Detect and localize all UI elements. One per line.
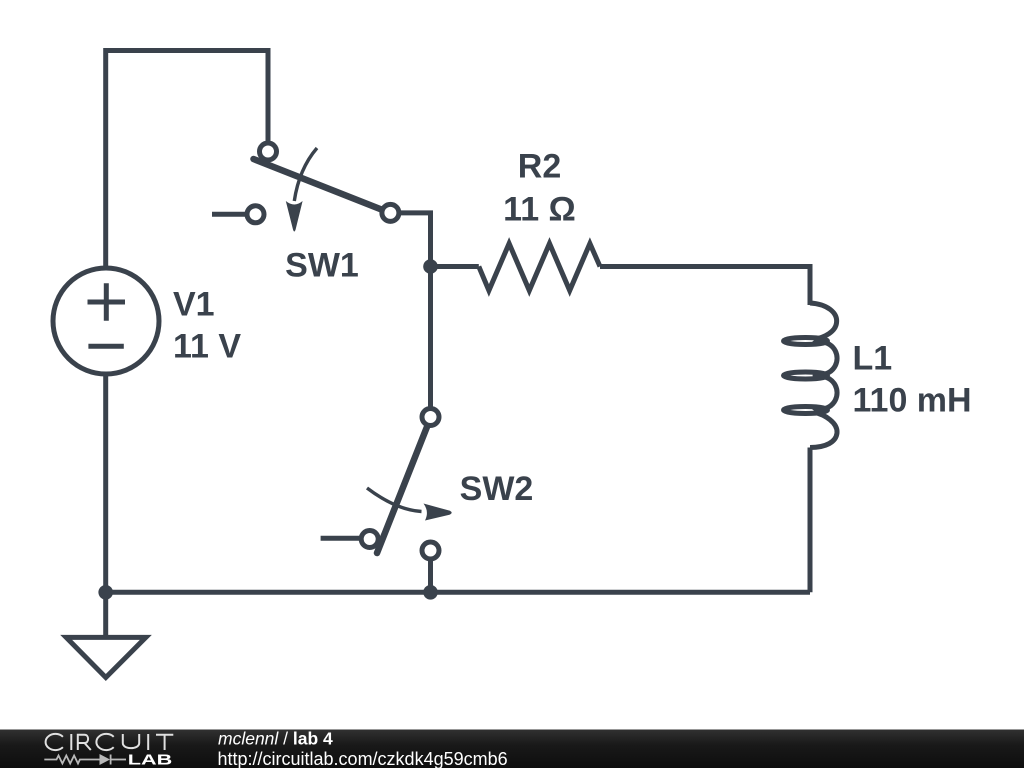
wire ground stub: [103, 592, 108, 637]
SW2 arrow head: [424, 504, 452, 521]
SW2 blade: [377, 418, 431, 553]
switch SW2: [321, 409, 452, 560]
wire SW2 bottom to rail: [428, 558, 433, 592]
wire SW1 right to node: [390, 213, 431, 267]
SW2 bottom terminal: [422, 542, 439, 559]
inductor bump2: [814, 342, 838, 375]
SW1 top terminal: [260, 143, 277, 160]
node A junction dot: [423, 259, 438, 274]
node ground-rail junction dot (SW2): [423, 585, 438, 600]
logo diode triangle: [100, 754, 111, 765]
SW1 arrow head: [286, 201, 303, 232]
svg-text:110 mH: 110 mH: [853, 382, 972, 420]
V1 minus sign: [88, 344, 123, 349]
svg-text:SW2: SW2: [460, 470, 534, 508]
wire node to SW2: [428, 267, 433, 409]
SW1 left terminal: [247, 206, 264, 223]
CircuitLab logo CIRCUIT: [46, 734, 174, 750]
SW1 right terminal: [382, 204, 399, 221]
CircuitLab logo resistor-diode row: [44, 755, 126, 765]
voltage source V1 circle: [53, 268, 159, 374]
wire resistor to inductor: [600, 267, 810, 306]
inductor bump3: [814, 376, 838, 409]
SW2 top terminal: [422, 409, 439, 426]
switch SW1: [212, 143, 399, 232]
svg-text:SW1: SW1: [285, 247, 359, 285]
svg-text:http://circuitlab.com/czkdk4g5: http://circuitlab.com/czkdk4g59cmb6: [218, 749, 508, 768]
SW1 left stub wire: [212, 212, 247, 217]
V1 plus sign: [88, 283, 126, 321]
svg-text:LAB: LAB: [128, 753, 173, 768]
SW2 left stub wire: [321, 536, 361, 541]
SW1 arc arrow: [294, 148, 317, 201]
svg-text:11 Ω: 11 Ω: [503, 191, 576, 229]
wire top-left rail: [106, 51, 268, 270]
inductor loop3: [784, 407, 828, 414]
inductor loop2: [784, 372, 828, 379]
svg-text:11 V: 11 V: [173, 328, 241, 366]
svg-text:mclennl / lab 4: mclennl / lab 4: [218, 729, 333, 749]
resistor R2: [479, 244, 600, 291]
inductor bump4: [810, 412, 837, 448]
inductor L1 coil top bump: [810, 303, 837, 340]
node ground-rail junction dot (V1): [98, 585, 113, 600]
wire inductor bottom to ground rail: [808, 448, 813, 593]
wire V1 bottom: [103, 374, 108, 592]
inductor loop1: [784, 338, 828, 345]
wire bottom rail: [106, 590, 810, 595]
ground symbol: [66, 637, 146, 677]
SW1 blade: [254, 159, 385, 211]
wire node to resistor and to inductor top: [431, 264, 479, 269]
svg-text:R2: R2: [518, 148, 561, 186]
SW2 left terminal: [361, 531, 378, 548]
SW2 arc arrow: [367, 488, 422, 512]
svg-text:L1: L1: [853, 340, 893, 378]
svg-text:V1: V1: [173, 286, 215, 324]
